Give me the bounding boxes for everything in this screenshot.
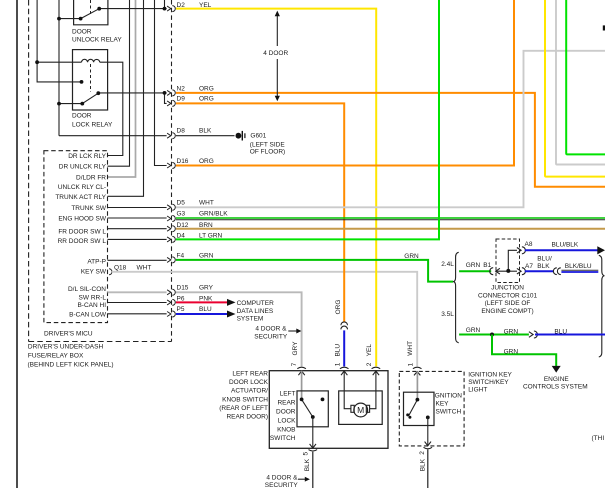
ground G601 symbol: [236, 131, 246, 141]
svg-text:TRUNK ACT RLY: TRUNK ACT RLY: [55, 194, 106, 201]
wire: D2 branch stub up: [164, 0, 166, 9]
svg-text:2: 2: [419, 451, 426, 455]
svg-text:TRUNK SW: TRUNK SW: [71, 205, 107, 212]
door lock relay switch blade: [82, 93, 98, 103]
DRIVER'S MICU dashed box: [44, 151, 108, 323]
fuse/relay box dashed bottom boundary: [29, 341, 172, 343]
svg-text:FUSE/RELAY BOX: FUSE/RELAY BOX: [28, 353, 84, 360]
cropped mark at right edge: [603, 25, 605, 30]
svg-text:3.5L: 3.5L: [441, 311, 454, 318]
svg-text:(LEFT SIDE: (LEFT SIDE: [250, 142, 286, 149]
svg-text:2.4L: 2.4L: [441, 261, 454, 268]
svg-text:GRN: GRN: [466, 327, 481, 334]
svg-text:D16: D16: [177, 158, 189, 165]
svg-text:M: M: [357, 405, 364, 415]
svg-text:ORG: ORG: [335, 300, 342, 315]
svg-text:KNOB: KNOB: [277, 426, 295, 433]
door lock relay box: [73, 50, 108, 110]
svg-text:4 DOOR: 4 DOOR: [263, 50, 288, 57]
svg-text:LEFT REAR: LEFT REAR: [232, 370, 268, 377]
svg-text:BLU: BLU: [335, 344, 342, 357]
svg-text:KEY: KEY: [436, 401, 450, 408]
svg-text:DATA LINES: DATA LINES: [237, 308, 274, 315]
svg-text:GRN: GRN: [504, 349, 519, 356]
svg-text:LOCK RELAY: LOCK RELAY: [72, 122, 113, 129]
svg-text:BLU: BLU: [554, 328, 567, 335]
svg-text:B1: B1: [483, 262, 491, 269]
svg-text:DR LCK RLY: DR LCK RLY: [68, 153, 106, 160]
svg-text:UNLOCK RELAY: UNLOCK RELAY: [72, 37, 122, 44]
svg-text:GRN: GRN: [404, 253, 419, 260]
wire knob switch to exit: [312, 417, 314, 448]
svg-text:BLU/: BLU/: [537, 256, 552, 263]
svg-text:ORG: ORG: [199, 96, 214, 103]
wire G3 GRN/BLK: [176, 217, 605, 219]
svg-text:D/LDR FR: D/LDR FR: [76, 175, 106, 182]
knob switch blade and contacts: [302, 399, 313, 417]
svg-text:(REAR OF LEFT: (REAR OF LEFT: [219, 405, 268, 412]
svg-text:DOOR: DOOR: [276, 409, 296, 416]
svg-text:DR UNLCK RLY: DR UNLCK RLY: [59, 164, 107, 171]
inline connector on D9/BLU wire: [341, 322, 348, 330]
brace right: [599, 255, 605, 357]
door unlock relay coil-switch dashed link: [90, 0, 92, 15]
wire: lock relay output to N2: [98, 92, 166, 94]
svg-text:DRIVER'S UNDER-DASH: DRIVER'S UNDER-DASH: [28, 344, 104, 351]
wire: D8 ground feed: [59, 135, 167, 137]
wire BLU A7: [525, 270, 554, 272]
entry arrows into actuator box: [298, 371, 420, 375]
wire: L-branch to fixed contact: [37, 62, 81, 82]
svg-text:4 DOOR &: 4 DOOR &: [255, 326, 287, 333]
svg-text:SECURITY: SECURITY: [254, 333, 288, 340]
wire D5 WHT elbow to right edge: [176, 51, 605, 208]
wire D16 ORG up to top edge: [176, 0, 514, 166]
svg-text:LOCK: LOCK: [278, 417, 296, 424]
wire GRY D15 down to actuator: [176, 292, 302, 366]
connector B1: [490, 268, 500, 275]
wire D8 BLK to ground: [176, 135, 235, 137]
svg-text:ORG: ORG: [199, 86, 214, 93]
wire: lock relay coil to DR LCK RLY: [100, 62, 123, 155]
connector A8: [517, 247, 526, 254]
wire P5 BLU to computer data lines: [176, 313, 228, 315]
wire GRN 3.5L row: [459, 334, 529, 336]
wire YEL elbow top right: [545, 0, 605, 177]
svg-text:CONTROLS SYSTEM: CONTROLS SYSTEM: [523, 384, 588, 391]
svg-text:D5: D5: [177, 200, 186, 207]
svg-text:DRIVER'S MICU: DRIVER'S MICU: [44, 330, 93, 337]
svg-text:GRY: GRY: [199, 285, 214, 292]
wire WHT inside ignition box: [416, 372, 418, 400]
exit arrow ignition: [425, 442, 431, 446]
svg-text:D8: D8: [177, 127, 186, 134]
svg-text:D9: D9: [177, 96, 186, 103]
svg-text:REAR: REAR: [277, 400, 295, 407]
wire GRY: D/L SIL-CON to D15: [108, 291, 167, 293]
MICU output wires: [108, 208, 167, 314]
wire BLK/BLU to right brace: [561, 269, 598, 271]
wire: relay common feed vertical: [58, 0, 60, 136]
fuse/relay box dashed left boundary: [28, 0, 30, 342]
wire: coil feed horizontal: [37, 61, 81, 63]
svg-text:Q18: Q18: [114, 264, 127, 271]
wire BLU bottom to right edge: [535, 334, 605, 336]
wire inside junction connector: [496, 250, 517, 271]
wire BLU/BLK A8 with arrow: [525, 249, 598, 251]
door unlock relay box (cropped at top): [74, 0, 108, 25]
ignition key switch box: [404, 392, 435, 425]
svg-text:B-CAN LOW: B-CAN LOW: [69, 312, 107, 319]
svg-text:WHT: WHT: [137, 264, 152, 271]
svg-text:BLK/BLU: BLK/BLU: [565, 263, 592, 270]
svg-text:COMPUTER: COMPUTER: [237, 300, 275, 307]
connector A7: [517, 268, 526, 275]
svg-text:(BEHIND LEFT KICK PANEL): (BEHIND LEFT KICK PANEL): [28, 361, 114, 368]
exit arc 2: [424, 447, 433, 449]
svg-text:5: 5: [303, 452, 310, 456]
motor M1: [351, 405, 354, 412]
junction connector C101 dashed box: [496, 239, 520, 283]
svg-text:2: 2: [366, 362, 373, 366]
svg-text:DOOR: DOOR: [72, 29, 92, 36]
knob switch box: [297, 391, 328, 427]
svg-text:4 DOOR &: 4 DOOR &: [266, 474, 298, 481]
svg-text:F4: F4: [177, 253, 185, 260]
entry arcs at actuator box top: [297, 367, 421, 369]
svg-text:GRY: GRY: [292, 341, 299, 356]
wire: unlock relay common feed: [59, 18, 81, 20]
connector symbols at dashed line: [167, 6, 175, 317]
svg-text:D/L SIL-CON: D/L SIL-CON: [68, 286, 106, 293]
svg-text:SWITCH: SWITCH: [270, 435, 296, 442]
svg-text:SYSTEM: SYSTEM: [237, 316, 264, 323]
svg-text:JUNCTION: JUNCTION: [491, 284, 524, 291]
label LEFT REAR DOOR LOCK KNOB SWITCH: [270, 391, 296, 443]
svg-text:RR DOOR SW L: RR DOOR SW L: [58, 238, 107, 245]
wire D2 YEL: [176, 9, 376, 367]
wire: unlock relay output to D2: [99, 8, 166, 10]
svg-text:BLK: BLK: [304, 458, 311, 471]
4 DOOR range arrow: [276, 14, 278, 99]
svg-text:G601: G601: [250, 133, 266, 140]
svg-text:B-CAN HI: B-CAN HI: [77, 302, 106, 309]
label LEFT REAR DOOR LOCK ACTUATOR: [219, 370, 268, 420]
svg-text:BLK: BLK: [199, 127, 212, 134]
wire GRN elbow top right: [566, 0, 605, 154]
wire WHT Q18 to ignition: [112, 272, 417, 367]
svg-text:REAR DOOR): REAR DOOR): [226, 414, 268, 421]
door lock relay coil: [82, 59, 100, 62]
wire WHT elbow top right: [556, 0, 605, 165]
svg-text:BLU/BLK: BLU/BLK: [552, 241, 579, 248]
svg-text:N2: N2: [177, 86, 186, 93]
exit arrow at box bottom: [310, 444, 316, 448]
svg-text:KEY SW: KEY SW: [81, 268, 107, 275]
label JUNCTION CONNECTOR C101: [478, 284, 538, 315]
wire BLK to bottom edge: [312, 452, 314, 488]
connector BLK/BLU double arc: [553, 268, 560, 275]
door lock relay coil-switch dashed link: [90, 64, 92, 92]
wire ignition switch to exit: [427, 417, 429, 445]
svg-text:A7: A7: [525, 263, 533, 270]
svg-text:LIGHT: LIGHT: [468, 386, 487, 393]
svg-text:ENGINE COMPT): ENGINE COMPT): [481, 308, 533, 315]
svg-text:ORG: ORG: [199, 158, 214, 165]
wires to motor terminals: [344, 371, 351, 409]
svg-text:ACTUATOR/: ACTUATOR/: [231, 388, 268, 395]
wire: relay coil feed vertical: [36, 0, 38, 62]
ignition key switch/key light dashed box: [399, 371, 464, 446]
svg-text:7: 7: [291, 362, 298, 366]
svg-text:1: 1: [407, 363, 414, 367]
wire P6 PNK to computer data lines: [176, 301, 228, 303]
junction dot 3.5L: [490, 333, 494, 337]
svg-text:G3: G3: [177, 211, 186, 218]
svg-text:WHT: WHT: [407, 341, 414, 356]
svg-text:FR DOOR SW L: FR DOOR SW L: [58, 229, 106, 236]
wire GRN branch to engine controls: [492, 335, 556, 367]
svg-text:SWITCH/KEY: SWITCH/KEY: [468, 379, 509, 386]
fuse/relay box left edge: [16, 0, 18, 488]
svg-text:IGNITION: IGNITION: [433, 393, 462, 400]
wire: TRUNK ACT RLY vertical: [108, 0, 144, 196]
svg-text:BLK: BLK: [537, 263, 550, 270]
wire: D16 feed vertical: [155, 0, 167, 166]
arrow to engine controls system: [552, 366, 561, 373]
svg-text:GRN: GRN: [504, 328, 519, 335]
exit arc 5: [309, 450, 318, 452]
wire BLU to actuator connector 1: [343, 330, 345, 366]
wire GRY inside box: [301, 371, 303, 400]
svg-text:SWITCH: SWITCH: [436, 409, 462, 416]
wire N2 ORG with elbow to right edge: [176, 93, 605, 187]
wire BLK ignition to bottom edge: [427, 450, 429, 488]
wire F4 GRN to 2.4L/3.5L brace: [176, 260, 453, 282]
wire D9 ORG down to inline connector: [176, 103, 344, 322]
svg-text:OF FLOOR): OF FLOOR): [250, 149, 285, 156]
svg-text:GRN: GRN: [466, 262, 481, 269]
svg-text:DOOR: DOOR: [72, 113, 92, 120]
svg-text:ENGINE: ENGINE: [544, 376, 570, 383]
svg-text:LEFT: LEFT: [280, 391, 296, 398]
connector GRN-BLU: [529, 331, 538, 338]
connector Q18 arc: [109, 269, 112, 275]
wire D4 LT GRN up to top edge: [176, 0, 439, 239]
svg-text:WHT: WHT: [199, 200, 214, 207]
connector dashed line (fuse box right boundary): [171, 0, 173, 342]
svg-text:CONNECTOR C101: CONNECTOR C101: [478, 292, 538, 299]
svg-text:KNOB SWITCH: KNOB SWITCH: [222, 396, 268, 403]
junction dot C101: [506, 269, 510, 273]
svg-text:D15: D15: [177, 285, 189, 292]
svg-text:IGNITION KEY: IGNITION KEY: [468, 372, 512, 379]
svg-text:ATP-P: ATP-P: [87, 259, 106, 266]
wire GRN B1: [459, 270, 491, 272]
wire: DR UNLCK RLY vertical: [108, 0, 130, 166]
wire WHT: D/LDR FR UNLCK RLY CL vertical: [108, 0, 136, 177]
svg-text:BLU: BLU: [199, 306, 212, 313]
svg-text:UNLCK RLY CL-: UNLCK RLY CL-: [58, 184, 106, 191]
svg-text:BLK: BLK: [420, 458, 427, 471]
svg-text:A8: A8: [525, 241, 533, 248]
MICU pin labels: [55, 153, 107, 319]
svg-text:YEL: YEL: [366, 344, 373, 357]
actuator box: [269, 371, 388, 449]
svg-text:GRN: GRN: [199, 253, 214, 260]
wire: lock relay common feed: [59, 103, 82, 105]
svg-text:(LEFT SIDE OF: (LEFT SIDE OF: [485, 300, 531, 307]
svg-text:SW RR-L: SW RR-L: [79, 294, 107, 301]
svg-text:ENG HOOD SW: ENG HOOD SW: [58, 216, 107, 223]
svg-text:SECURITY: SECURITY: [265, 482, 299, 488]
ignition switch blade and contacts: [409, 400, 418, 416]
svg-text:DOOR LOCK: DOOR LOCK: [229, 379, 269, 386]
svg-text:(THI: (THI: [592, 435, 605, 442]
junction dots top-left: [35, 7, 166, 106]
motor box: [339, 391, 383, 425]
door unlock relay switch blade: [81, 9, 100, 19]
wire: N2 to D9 jumper stub: [165, 93, 167, 104]
brace left (engine variants): [453, 252, 459, 342]
wire D12 BRN: [176, 228, 605, 230]
svg-text:P5: P5: [177, 306, 185, 313]
svg-text:1: 1: [334, 362, 341, 366]
svg-text:GRN/BLK: GRN/BLK: [199, 211, 228, 218]
